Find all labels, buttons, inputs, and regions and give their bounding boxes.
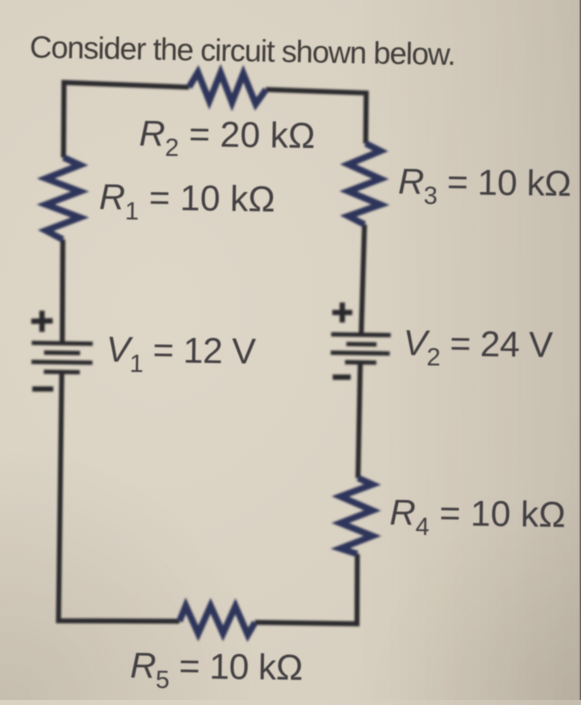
wire R1 to V1 xyxy=(60,240,66,344)
plus sign V1 xyxy=(31,311,52,332)
resistor R4 xyxy=(340,478,372,554)
svg-text:R2 = 20 kΩ: R2 = 20 kΩ xyxy=(139,113,316,164)
battery V1 xyxy=(31,343,92,373)
svg-text:V2 = 24 V: V2 = 24 V xyxy=(403,322,553,373)
plus sign V2 xyxy=(332,303,352,323)
minus sign V1 xyxy=(32,386,53,391)
wire V1 to bottom-left corner to R5 xyxy=(59,372,180,621)
wire V2 to R4 xyxy=(358,362,360,478)
resistor R1 xyxy=(46,158,80,240)
wire R3 to V2 xyxy=(361,225,364,335)
wire top-left: left branch top + top wire left segment xyxy=(64,83,190,158)
svg-text:V1 = 12 V: V1 = 12 V xyxy=(106,329,256,380)
svg-text:R3 = 10 kΩ: R3 = 10 kΩ xyxy=(398,161,572,212)
minus sign V2 xyxy=(333,375,351,380)
right dark edge of photo xyxy=(579,0,581,700)
battery V2 xyxy=(331,334,391,363)
resistor R5 xyxy=(180,606,256,635)
resistor R2 xyxy=(189,72,266,104)
svg-text:R1 = 10 kΩ: R1 = 10 kΩ xyxy=(99,176,276,227)
svg-text:Consider the circuit shown bel: Consider the circuit shown below. xyxy=(29,30,455,72)
svg-text:R4 = 10 kΩ: R4 = 10 kΩ xyxy=(389,492,566,543)
svg-text:R5 = 10 kΩ: R5 = 10 kΩ xyxy=(130,645,303,696)
resistor R3 xyxy=(348,144,380,225)
wire top-right corner: top wire right segment + middle branch top xyxy=(266,90,366,144)
wire R4 to bottom-right corner to R5 xyxy=(255,554,357,624)
